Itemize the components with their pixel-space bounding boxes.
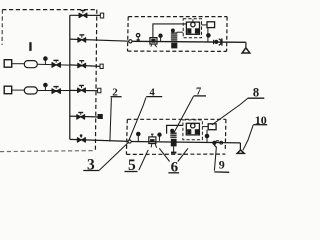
check valve CV1 — [214, 38, 222, 45]
underline 8 — [248, 97, 265, 99]
bottom box main line — [131, 142, 240, 143]
termination plug row5 — [98, 114, 103, 119]
motor unit M1 — [186, 19, 199, 34]
leader label 6 left — [159, 148, 169, 161]
leader label 3 — [99, 142, 128, 170]
wire — [37, 63, 70, 66]
valve V2 row2 — [78, 35, 86, 43]
solenoid valve B2 — [149, 134, 157, 148]
wire — [12, 63, 25, 65]
termination fitting row4 — [98, 88, 101, 93]
wire to drain — [245, 42, 247, 47]
pump P1 (plunger stack) — [171, 29, 183, 48]
valve V7 — [52, 60, 60, 67]
leader label 6 right — [178, 148, 188, 161]
valve V6 row6 — [78, 134, 86, 142]
wire branch row 2 to top box — [70, 39, 129, 41]
valve V1 row1 — [79, 11, 87, 18]
svg-text:3: 3 — [87, 157, 95, 174]
solenoid valve T2 — [150, 38, 157, 48]
gauge G8 — [205, 134, 209, 138]
leader lines — [99, 96, 253, 170]
leader label 4 — [129, 97, 146, 141]
underline 10 — [253, 124, 267, 126]
inlet node circle — [128, 140, 131, 143]
svg-text:10: 10 — [255, 113, 267, 127]
manifold main vertical pipe — [69, 15, 71, 139]
wire — [12, 89, 25, 91]
wire branch row 4 — [70, 89, 98, 91]
wire branch row 6 to bottom box — [70, 139, 130, 141]
svg-text:7: 7 — [196, 87, 201, 98]
top box main line — [132, 41, 246, 42]
underline 4 — [146, 96, 162, 98]
termination fitting row3 — [100, 64, 103, 69]
valve V8 — [52, 87, 60, 94]
supply assembly A (row3 feed) — [4, 57, 70, 68]
check valve CV2 — [212, 141, 222, 147]
drain triangle D2 — [237, 150, 244, 154]
label underlines — [83, 96, 267, 173]
left station dashed enclosure — [0, 10, 97, 152]
gauge G7 — [158, 133, 161, 141]
gauge G6 — [137, 132, 141, 141]
gauge G5 — [207, 34, 211, 38]
motor sub-enclosure (dashed) — [183, 19, 201, 38]
svg-text:8: 8 — [253, 86, 259, 100]
underline 3 — [83, 170, 99, 172]
bottom pump station dashed enclosure — [126, 119, 225, 154]
motor sub-enclosure (dashed) — [183, 120, 203, 140]
svg-text:5: 5 — [128, 157, 136, 174]
pump P2 (plunger stack) — [170, 129, 176, 153]
top pump station dashed enclosure — [128, 17, 228, 52]
wire branch row 3 — [70, 65, 100, 67]
relief loop wire — [153, 24, 187, 38]
svg-text:2: 2 — [112, 86, 118, 98]
valve V5 row5 — [77, 113, 85, 120]
underline 7 — [194, 95, 206, 97]
wire to drain — [239, 143, 241, 150]
gauge G1 — [44, 60, 46, 64]
relief loop wire — [167, 125, 183, 133]
svg-text:4: 4 — [150, 87, 156, 98]
underline 6 — [168, 172, 179, 174]
valve V4 row4 — [78, 86, 86, 93]
valve V3 row3 — [78, 61, 86, 68]
leader label 7 — [174, 96, 194, 133]
leader label 5 — [139, 150, 148, 170]
underline 2 — [111, 96, 122, 98]
underline 5 — [125, 171, 138, 173]
control block T6 — [202, 22, 215, 42]
tank square B1 — [4, 86, 12, 94]
wire branch row 5 — [70, 115, 100, 118]
gauge G4 — [159, 34, 162, 41]
leader label 9 — [214, 147, 216, 171]
label 1 — [29, 42, 31, 51]
termination fitting row1 — [100, 13, 103, 19]
underline 9 — [214, 171, 229, 173]
gauge G3 — [136, 34, 140, 42]
control block B6 — [202, 124, 216, 143]
wire branch row 1 — [70, 14, 101, 16]
inlet node circle — [129, 40, 132, 43]
svg-text:9: 9 — [219, 157, 225, 171]
filter capsule F1 — [24, 61, 37, 68]
wire — [37, 90, 70, 92]
leader label 10 — [243, 125, 253, 150]
filter capsule F2 — [24, 87, 37, 94]
supply assembly B (row4 feed) — [4, 83, 70, 94]
drain triangle D1 — [242, 48, 250, 53]
leader label 8 — [212, 98, 248, 125]
gauge G2 — [44, 87, 46, 91]
motor unit M2 — [186, 123, 199, 135]
tank square A1 — [4, 60, 12, 67]
svg-text:6: 6 — [171, 159, 179, 175]
leader label 2 — [110, 98, 112, 142]
